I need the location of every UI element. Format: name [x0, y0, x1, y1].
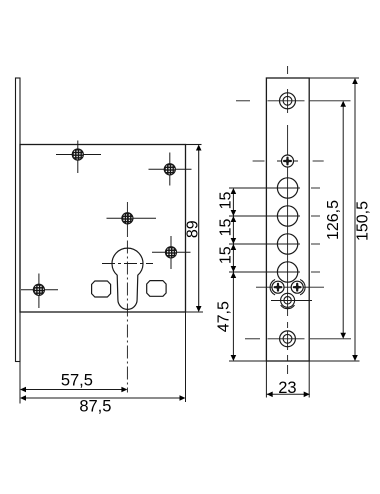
svg-text:57,5: 57,5 — [61, 372, 93, 390]
svg-text:23: 23 — [278, 379, 296, 397]
svg-text:150,5: 150,5 — [355, 201, 372, 241]
svg-text:15: 15 — [218, 192, 235, 210]
svg-text:47,5: 47,5 — [215, 301, 232, 332]
svg-text:15: 15 — [218, 219, 235, 237]
svg-text:87,5: 87,5 — [79, 398, 111, 416]
svg-text:126,5: 126,5 — [325, 200, 342, 240]
svg-text:15: 15 — [218, 246, 235, 264]
svg-text:89: 89 — [184, 220, 201, 238]
